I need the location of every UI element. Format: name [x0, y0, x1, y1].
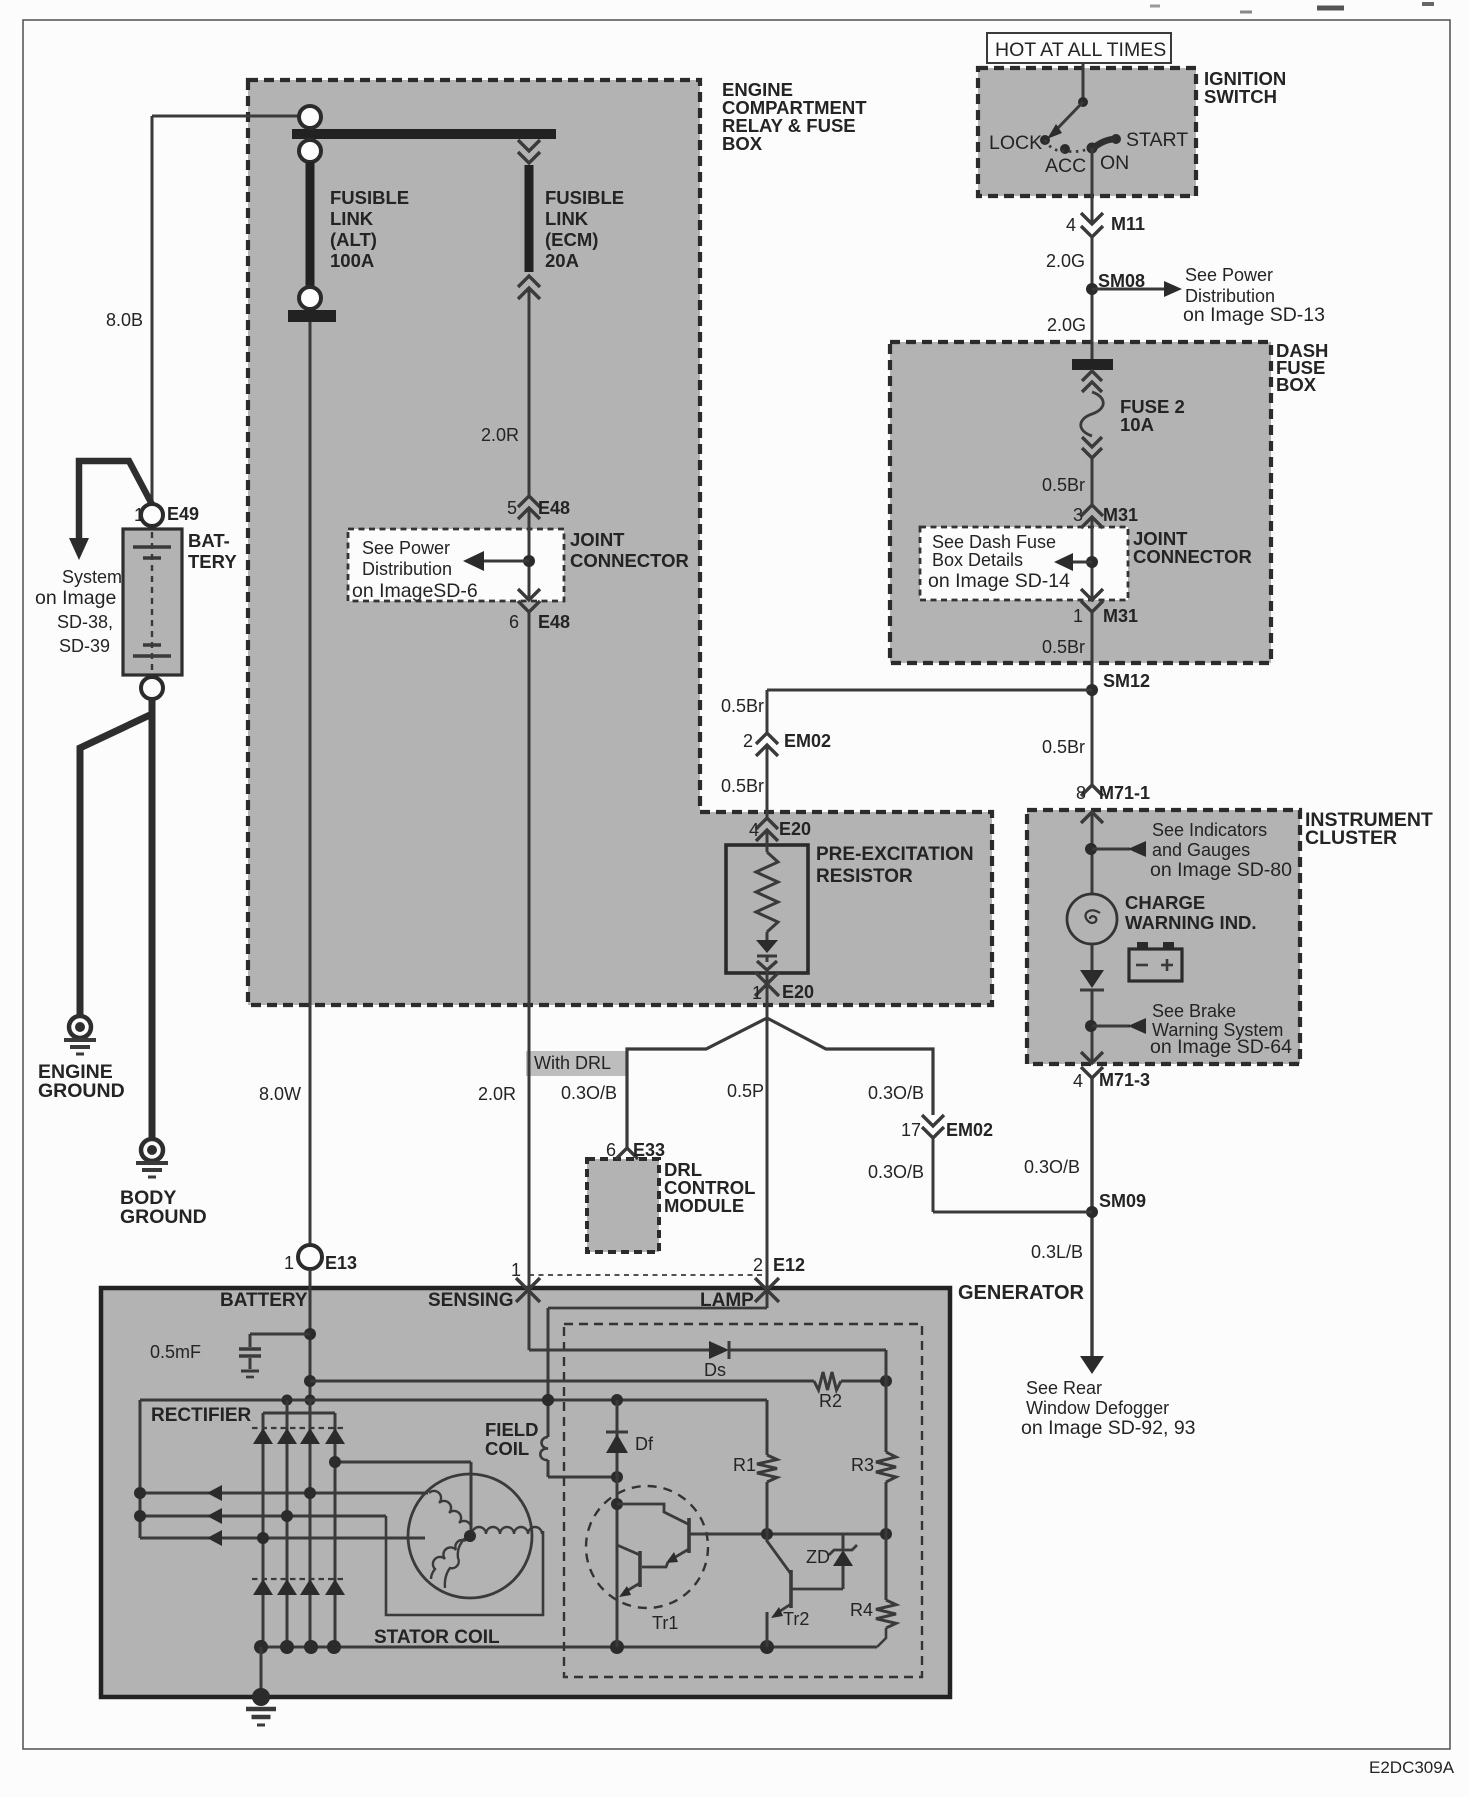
svg-text:SD-38,: SD-38, [57, 612, 113, 632]
svg-text:MODULE: MODULE [664, 1195, 744, 1216]
svg-text:8.0W: 8.0W [259, 1084, 301, 1104]
svg-text:M31: M31 [1103, 606, 1138, 626]
svg-text:on Image SD-64: on Image SD-64 [1150, 1036, 1292, 1058]
svg-text:17: 17 [901, 1120, 921, 1140]
svg-text:LINK: LINK [545, 208, 589, 229]
svg-text:PRE-EXCITATION: PRE-EXCITATION [816, 844, 974, 865]
svg-text:and Gauges: and Gauges [1152, 840, 1250, 860]
svg-text:GENERATOR: GENERATOR [958, 1282, 1084, 1304]
svg-text:2.0G: 2.0G [1047, 315, 1086, 335]
svg-text:SM09: SM09 [1099, 1191, 1146, 1211]
svg-text:See Indicators: See Indicators [1152, 820, 1267, 840]
svg-text:on Image SD-80: on Image SD-80 [1150, 859, 1292, 881]
svg-text:2.0G: 2.0G [1046, 251, 1085, 271]
svg-text:Tr1: Tr1 [652, 1613, 678, 1633]
svg-text:0.5Br: 0.5Br [721, 776, 764, 796]
svg-text:6: 6 [509, 612, 519, 632]
svg-text:0.5mF: 0.5mF [150, 1342, 201, 1362]
svg-text:0.5Br: 0.5Br [1042, 637, 1085, 657]
svg-text:20A: 20A [545, 250, 579, 271]
svg-text:LINK: LINK [330, 208, 374, 229]
svg-text:2.0R: 2.0R [481, 425, 519, 445]
svg-text:EM02: EM02 [784, 731, 831, 751]
svg-text:100A: 100A [330, 250, 374, 271]
svg-text:Ds: Ds [704, 1360, 726, 1380]
svg-text:M11: M11 [1111, 214, 1145, 234]
svg-text:on Image SD-14: on Image SD-14 [928, 570, 1070, 592]
svg-text:8: 8 [1076, 783, 1086, 803]
svg-text:E48: E48 [538, 612, 570, 632]
svg-text:FUSIBLE: FUSIBLE [545, 187, 624, 208]
svg-text:1: 1 [284, 1253, 294, 1273]
svg-text:M71-3: M71-3 [1099, 1070, 1150, 1090]
svg-text:8.0B: 8.0B [106, 310, 143, 330]
svg-text:CONNECTOR: CONNECTOR [570, 550, 689, 571]
svg-text:See Brake: See Brake [1152, 1001, 1236, 1021]
svg-text:E20: E20 [782, 982, 814, 1002]
svg-text:E48: E48 [538, 498, 570, 518]
svg-text:SM12: SM12 [1103, 671, 1150, 691]
svg-text:0.5Br: 0.5Br [1042, 737, 1085, 757]
svg-text:CHARGE: CHARGE [1125, 892, 1205, 913]
svg-text:CONNECTOR: CONNECTOR [1133, 546, 1252, 567]
svg-text:Box Details: Box Details [932, 550, 1023, 570]
svg-text:ON: ON [1100, 152, 1129, 174]
svg-text:FIELD: FIELD [485, 1419, 538, 1440]
svg-text:0.3O/B: 0.3O/B [1024, 1157, 1080, 1177]
svg-text:E13: E13 [325, 1253, 357, 1273]
svg-text:on Image SD-92, 93: on Image SD-92, 93 [1021, 1417, 1196, 1439]
svg-text:JOINT: JOINT [570, 529, 625, 550]
svg-text:BAT-: BAT- [188, 530, 230, 551]
svg-text:3: 3 [1073, 505, 1083, 525]
svg-text:10A: 10A [1120, 414, 1154, 435]
svg-text:See Rear: See Rear [1026, 1378, 1102, 1398]
svg-text:0.5Br: 0.5Br [721, 696, 764, 716]
svg-text:4: 4 [749, 820, 759, 840]
svg-text:R4: R4 [850, 1600, 873, 1620]
svg-text:1: 1 [511, 1260, 521, 1280]
svg-text:See Power: See Power [1185, 265, 1273, 285]
svg-text:1: 1 [134, 505, 144, 525]
svg-text:E49: E49 [167, 504, 199, 524]
svg-text:SENSING: SENSING [428, 1290, 514, 1311]
svg-text:4: 4 [1073, 1071, 1083, 1091]
svg-text:0.3O/B: 0.3O/B [561, 1083, 617, 1103]
svg-text:5: 5 [507, 498, 517, 518]
svg-text:ACC: ACC [1045, 155, 1086, 177]
svg-text:TERY: TERY [188, 551, 237, 572]
svg-text:2: 2 [753, 1255, 763, 1275]
svg-text:R1: R1 [733, 1455, 756, 1475]
svg-text:BATTERY: BATTERY [220, 1290, 308, 1311]
svg-text:See Power: See Power [362, 538, 450, 558]
svg-text:See Dash Fuse: See Dash Fuse [932, 532, 1056, 552]
svg-text:M71-1: M71-1 [1099, 783, 1150, 803]
svg-text:E2DC309A: E2DC309A [1369, 1758, 1455, 1777]
svg-text:Df: Df [635, 1434, 654, 1454]
svg-text:(ECM): (ECM) [545, 229, 598, 250]
svg-text:6: 6 [606, 1140, 616, 1160]
svg-text:R2: R2 [819, 1391, 842, 1411]
svg-text:SWITCH: SWITCH [1204, 86, 1277, 107]
svg-text:With DRL: With DRL [534, 1053, 611, 1073]
svg-text:0.3L/B: 0.3L/B [1031, 1242, 1083, 1262]
svg-text:Distribution: Distribution [1185, 286, 1275, 306]
svg-text:System: System [62, 567, 122, 587]
svg-text:0.5Br: 0.5Br [1042, 475, 1085, 495]
svg-text:GROUND: GROUND [38, 1080, 125, 1102]
svg-text:1: 1 [1073, 606, 1083, 626]
svg-text:E20: E20 [779, 819, 811, 839]
svg-text:Tr2: Tr2 [783, 1609, 809, 1629]
svg-text:Window Defogger: Window Defogger [1026, 1398, 1169, 1418]
svg-text:LOCK: LOCK [989, 132, 1042, 154]
svg-text:COIL: COIL [485, 1438, 529, 1459]
svg-text:2: 2 [743, 731, 753, 751]
svg-text:0.3O/B: 0.3O/B [868, 1083, 924, 1103]
svg-text:ZD: ZD [806, 1547, 830, 1567]
svg-text:SM08: SM08 [1098, 271, 1145, 291]
svg-text:BOX: BOX [1276, 374, 1317, 395]
svg-text:M31: M31 [1103, 505, 1138, 525]
svg-text:4: 4 [1066, 215, 1076, 235]
svg-text:R3: R3 [851, 1455, 874, 1475]
svg-text:START: START [1126, 129, 1188, 151]
svg-text:BOX: BOX [722, 133, 763, 154]
svg-text:(ALT): (ALT) [330, 229, 377, 250]
svg-text:RECTIFIER: RECTIFIER [151, 1405, 252, 1426]
svg-text:GROUND: GROUND [120, 1206, 207, 1228]
svg-text:FUSIBLE: FUSIBLE [330, 187, 409, 208]
svg-text:RESISTOR: RESISTOR [816, 866, 913, 887]
svg-text:1: 1 [752, 983, 762, 1003]
svg-text:0.3O/B: 0.3O/B [868, 1162, 924, 1182]
svg-text:HOT AT ALL TIMES: HOT AT ALL TIMES [995, 39, 1166, 61]
svg-text:SD-39: SD-39 [59, 636, 110, 656]
svg-text:CLUSTER: CLUSTER [1305, 827, 1397, 849]
svg-text:Distribution: Distribution [362, 559, 452, 579]
svg-text:E33: E33 [633, 1140, 665, 1160]
svg-text:EM02: EM02 [946, 1120, 993, 1140]
svg-text:on Image SD-13: on Image SD-13 [1183, 304, 1325, 326]
svg-text:on Image: on Image [35, 587, 116, 609]
svg-text:STATOR COIL: STATOR COIL [374, 1627, 500, 1648]
svg-text:E12: E12 [773, 1255, 805, 1275]
svg-text:on ImageSD-6: on ImageSD-6 [352, 580, 478, 602]
svg-text:0.5P: 0.5P [727, 1081, 764, 1101]
svg-text:2.0R: 2.0R [478, 1084, 516, 1104]
svg-text:WARNING IND.: WARNING IND. [1125, 912, 1257, 933]
svg-text:LAMP: LAMP [700, 1290, 754, 1311]
